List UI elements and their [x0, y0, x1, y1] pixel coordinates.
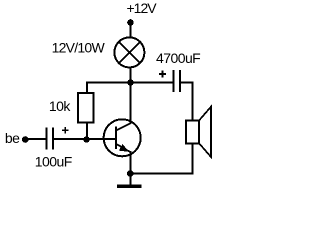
wire collector node down to 10k resistor — [86, 82, 88, 141]
transistor Q1 emitter arrow — [119, 144, 129, 152]
wire +12V terminal to lamp and lamp to collector node — [130, 24, 132, 84]
wire 4700uF right plate to speaker corner — [180, 82, 194, 84]
polarity plus of C2 4700uF — [159, 71, 166, 78]
terminal dot +12V — [127, 19, 134, 26]
wire collector node to transistor collector — [130, 82, 132, 124]
speaker SP1 box — [186, 120, 199, 143]
speaker SP1 horn — [199, 107, 211, 157]
wire bottom rail ground node to speaker — [130, 173, 194, 175]
lamp LP1 (circle with X) 12V/10W — [114, 37, 144, 67]
transistor Q1 base bar — [115, 127, 117, 150]
resistor R1 10k box — [78, 93, 93, 123]
wire emitter to ground node — [130, 151, 132, 175]
node collector junction — [127, 79, 134, 86]
wire ground node to ground symbol — [130, 174, 132, 186]
svg-text:+12V: +12V — [127, 0, 158, 16]
capacitor C1 100uF left plate — [46, 128, 48, 150]
svg-text:10k: 10k — [49, 98, 71, 114]
wire base rail: 100uF right plate to transistor base — [53, 138, 117, 140]
capacitor C2 4700uF left plate — [172, 70, 174, 92]
wire speaker vertical — [192, 82, 194, 174]
svg-text:4700uF: 4700uF — [156, 50, 200, 66]
capacitor C2 4700uF right plate — [179, 70, 181, 92]
svg-text:be: be — [5, 130, 20, 146]
transistor Q1 collector lead — [116, 123, 131, 130]
svg-text:12V/10W: 12V/10W — [52, 40, 106, 56]
wire base rail: be terminal to 100uF left plate — [24, 138, 46, 140]
capacitor C1 100uF right plate — [52, 128, 54, 150]
transistor Q1 circle — [104, 119, 141, 156]
transistor Q1 emitter lead — [116, 144, 131, 152]
terminal dot be input — [22, 136, 29, 143]
node emitter/ground junction — [127, 170, 134, 177]
polarity plus of C1 100uF — [62, 127, 69, 133]
ground symbol bar — [117, 185, 142, 188]
node base junction — [83, 136, 90, 143]
svg-text:100uF: 100uF — [35, 153, 72, 169]
wire collector node rail to 4700uF left plate — [86, 82, 173, 84]
